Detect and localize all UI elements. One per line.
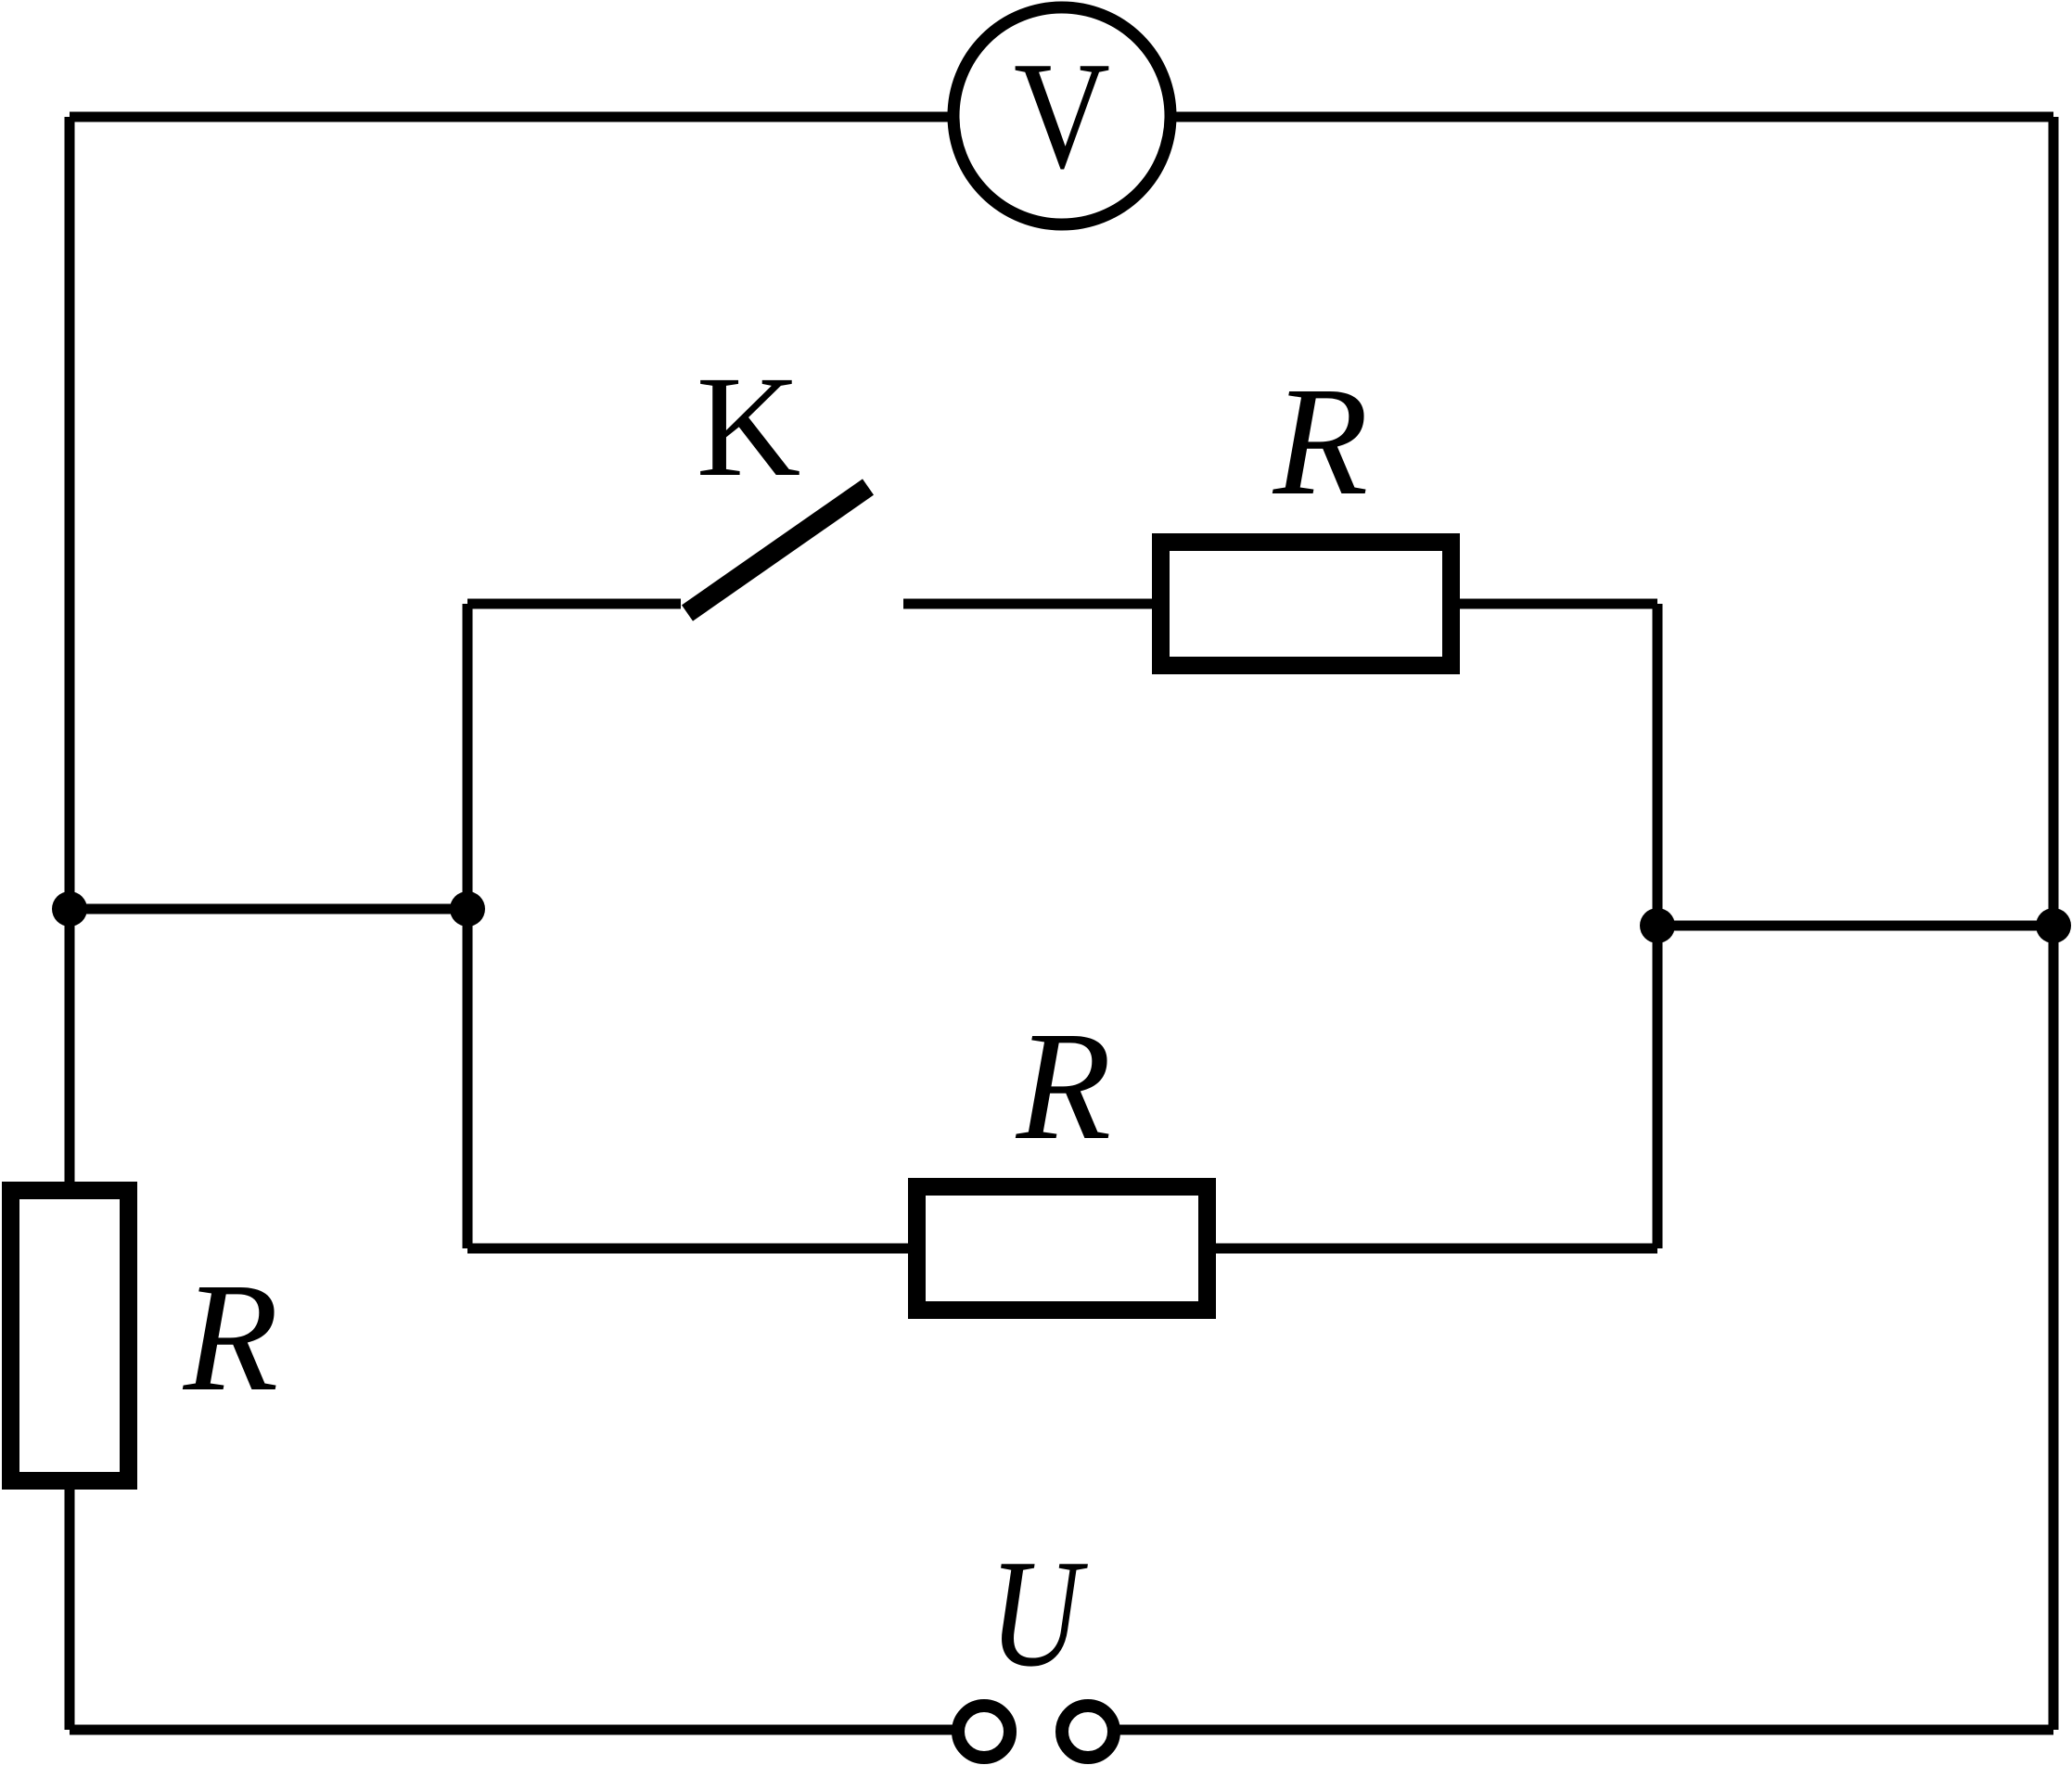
- wire left vertical: [65, 117, 75, 1730]
- svg-text:R: R: [1273, 355, 1369, 528]
- svg-text:R: R: [1016, 1000, 1112, 1172]
- wire inner-right vertical: [1653, 604, 1663, 1248]
- wire middle left link: [70, 904, 467, 915]
- resistor R (lower branch): [917, 1187, 1208, 1311]
- svg-text:U: U: [990, 1528, 1089, 1698]
- voltmeter U1 circle: [953, 7, 1170, 224]
- node dot B (inner-left / middle link): [450, 891, 485, 927]
- wire middle right link: [1657, 921, 2053, 931]
- terminal left (supply U): [958, 1706, 1010, 1758]
- terminal right (supply U): [1062, 1706, 1114, 1758]
- wire upper branch left (to switch): [467, 599, 681, 609]
- svg-text:V: V: [1014, 30, 1110, 200]
- wire bottom right segment: [1088, 1725, 2053, 1735]
- wire upper branch right (switch to R, R to inner-right): [903, 599, 1657, 609]
- wire right vertical: [2049, 117, 2059, 1730]
- node dot C (inner-right / middle link): [1640, 908, 1675, 943]
- wire inner-left vertical: [463, 604, 473, 1248]
- node dot A (outer-left / middle link): [52, 891, 87, 927]
- resistor R (left vertical): [11, 1191, 129, 1481]
- svg-text:K: K: [697, 346, 801, 506]
- node dot D (outer-right / middle link): [2036, 908, 2071, 943]
- wire lower branch: [467, 1244, 1657, 1254]
- wire top (left segment to voltmeter, right segment after): [70, 112, 2053, 122]
- switch K lever: [687, 487, 868, 613]
- resistor R (upper branch): [1161, 543, 1452, 666]
- wire bottom left segment: [70, 1725, 984, 1735]
- svg-text:R: R: [183, 1251, 279, 1424]
